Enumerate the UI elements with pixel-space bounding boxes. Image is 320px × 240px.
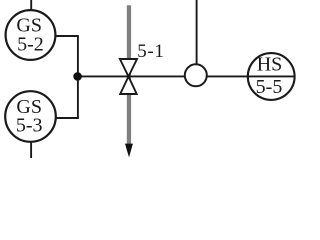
open circle node bbox=[185, 64, 207, 86]
valve V5-1 bottom triangle bbox=[120, 77, 137, 95]
wire: elbow from GS 5-2 to vertical connector bbox=[52, 35, 79, 37]
wire: elbow from GS 5-3 to vertical connector bbox=[52, 117, 79, 119]
svg-text:5-1: 5-1 bbox=[137, 41, 164, 62]
wire: vertical line above open circle bbox=[196, 0, 198, 66]
pipe (gray process line, vertical) bbox=[127, 5, 131, 144]
instrument bubble GS 5-3 circle U2 bbox=[5, 91, 56, 142]
svg-text:5-5: 5-5 bbox=[256, 76, 283, 98]
instrument bubble HS 5-5 circle U3 bbox=[248, 53, 295, 100]
valve V5-1 top triangle bbox=[120, 59, 137, 77]
wire: stub above GS 5-2 bbox=[30, 0, 32, 12]
svg-text:5-2: 5-2 bbox=[17, 33, 44, 55]
wire: vertical connector between elbows bbox=[77, 36, 79, 118]
junction dot bbox=[73, 72, 82, 81]
svg-text:5-3: 5-3 bbox=[16, 115, 43, 137]
wire: stub below GS 5-3 bbox=[30, 140, 32, 158]
instrument bubble GS 5-2 circle U1 bbox=[6, 10, 56, 60]
wire: main horizontal signal line bbox=[78, 75, 295, 77]
pipe flow arrowhead bbox=[125, 144, 133, 158]
svg-text:HS: HS bbox=[257, 53, 283, 75]
